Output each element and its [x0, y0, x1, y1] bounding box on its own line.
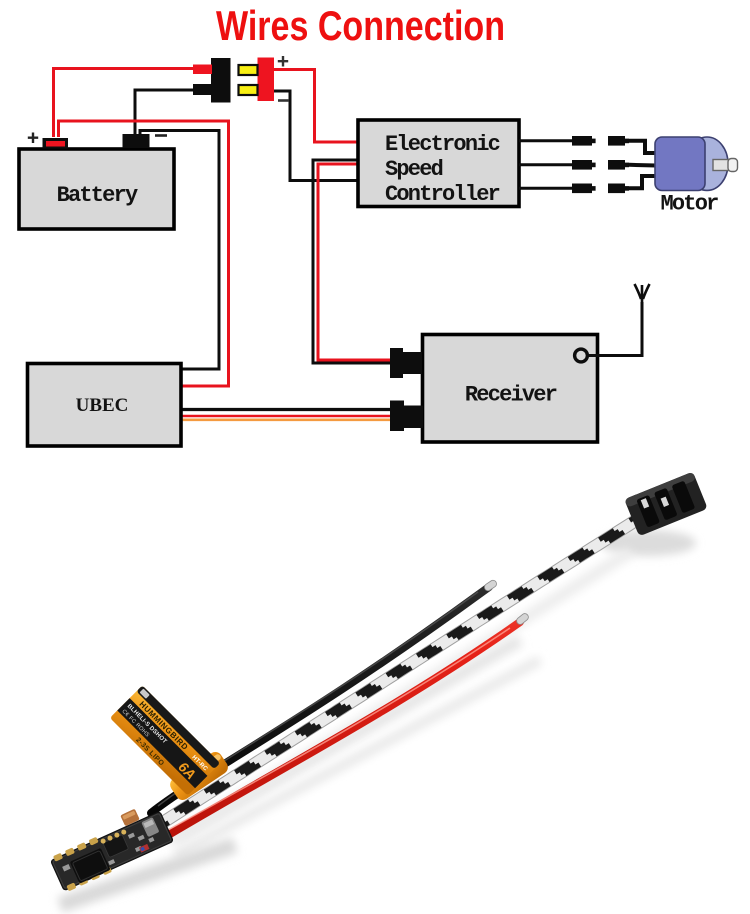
svg-text:Battery: Battery — [57, 183, 138, 208]
svg-text:Receiver: Receiver — [465, 383, 557, 408]
photo: heat-shrink tube on wire — [167, 749, 230, 802]
svg-text:Speed: Speed — [385, 157, 443, 182]
bullet connector row 1 left — [572, 136, 596, 146]
wire: ESC to motor phase 3 — [519, 187, 573, 190]
wire: bullet row2 to motor — [629, 163, 656, 168]
wire: bullet row3 to motor — [629, 176, 656, 188]
wire: connector J2 minus to ESC (black) — [273, 91, 357, 181]
bullet connector row 3 left — [572, 184, 596, 194]
photo: soft shadows — [60, 530, 696, 905]
motor M1 body — [655, 137, 738, 191]
receiver box — [423, 335, 598, 443]
PCB mosfet (silver) — [141, 817, 159, 837]
battery minus terminal — [123, 134, 150, 148]
svg-text:UBEC: UBEC — [76, 395, 129, 416]
antenna wire — [588, 302, 643, 356]
wire: connector J2 plus to ESC (red) — [273, 70, 357, 143]
bullet connector row 2 right — [608, 160, 629, 170]
svg-text:Motor: Motor — [660, 192, 718, 217]
label: plus (battery) — [28, 133, 38, 144]
wire: ESC to receiver upper connector (black) — [313, 160, 392, 363]
battery B1 box — [19, 149, 174, 229]
PCB red component — [139, 844, 149, 853]
label: plus (connector) — [278, 56, 288, 67]
antenna terminal circle — [575, 349, 588, 362]
photo: twisted signal wire pair — [144, 513, 645, 836]
wire: ESC to motor phase 1 — [519, 139, 573, 142]
receiver upper connector — [390, 348, 422, 378]
label: minus (connector) — [278, 99, 289, 102]
wire: battery minus to connector J1 (black) — [135, 90, 196, 137]
photo: heat-shrink flag label — [110, 685, 220, 795]
wire: ESC to motor phase 2 — [519, 163, 573, 166]
wire: battery plus to connector J1 (red) — [54, 69, 197, 138]
svg-text:Electronic: Electronic — [385, 132, 500, 157]
PCB QFN driver — [103, 834, 129, 857]
PCB main MCU — [70, 848, 111, 884]
receiver lower connector — [390, 401, 423, 432]
wire: battery minus to UBEC (black) — [140, 131, 219, 370]
ESC box U1 — [358, 120, 519, 207]
photo: servo connector — [624, 472, 708, 537]
label: minus (battery) — [155, 134, 167, 137]
servo cable UBEC to receiver: orange lead — [182, 418, 392, 421]
svg-text:Wires Connection: Wires Connection — [216, 2, 505, 49]
PCB gold dots — [100, 829, 127, 845]
antenna tip — [635, 284, 650, 304]
PCB capacitor (orange) — [120, 809, 140, 827]
connector J2 red female — [239, 58, 275, 102]
wire: battery plus to UBEC (red) — [59, 121, 229, 386]
PCB gold castellation pads — [53, 837, 112, 892]
bullet connector row 3 right — [608, 184, 629, 194]
servo cable UBEC to receiver: black lead — [182, 408, 392, 411]
wire: ESC to receiver upper connector (red) — [318, 164, 392, 360]
PCB passives — [61, 826, 156, 883]
bullet connector row 2 left — [572, 160, 596, 170]
servo cable UBEC to receiver: red lead — [182, 415, 392, 418]
UBEC box — [28, 364, 182, 447]
wire: bullet row1 to motor — [629, 141, 656, 153]
photo: ESC PCB board — [49, 809, 174, 893]
battery plus terminal — [43, 138, 69, 149]
svg-text:Controller: Controller — [385, 182, 500, 207]
bullet connector row 1 right — [608, 136, 629, 146]
photo: red power wire — [155, 612, 530, 843]
connector J1 black male — [193, 58, 231, 103]
photo: black power wire — [151, 579, 498, 813]
